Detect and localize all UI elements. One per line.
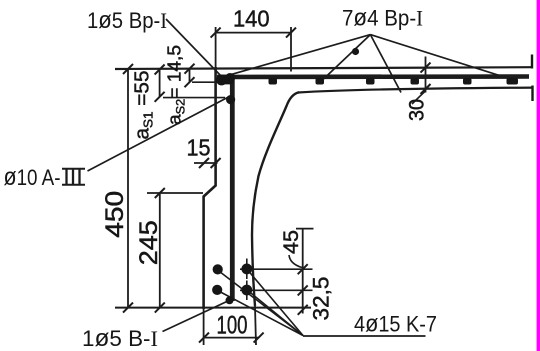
svg-text:ø10 A-: ø10 A- — [4, 163, 61, 191]
svg-text:7ø4 Bp-I: 7ø4 Bp-I — [342, 5, 423, 32]
svg-text:245: 245 — [135, 220, 163, 265]
svg-text:32,5: 32,5 — [309, 277, 334, 321]
svg-text:45: 45 — [280, 230, 303, 254]
svg-text:4ø15 K-7: 4ø15 K-7 — [354, 311, 437, 338]
svg-text:30: 30 — [406, 99, 429, 121]
svg-text:15: 15 — [187, 135, 211, 161]
svg-text:100: 100 — [217, 312, 248, 340]
svg-text:450: 450 — [101, 191, 129, 238]
svg-text:1ø5 B-I: 1ø5 B-I — [82, 325, 158, 351]
svg-text:aS1 =55: aS1 =55 — [132, 71, 156, 140]
svg-text:1ø5 Bp-I: 1ø5 Bp-I — [87, 7, 167, 34]
svg-text:140: 140 — [233, 6, 270, 32]
